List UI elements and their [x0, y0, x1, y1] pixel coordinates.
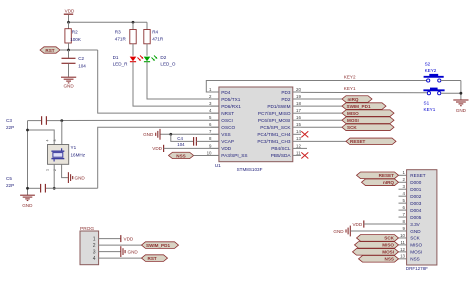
- svg-text:NSS: NSS: [410, 257, 419, 262]
- net label NSS (DRF): [359, 256, 399, 263]
- wire crystal pin2 to ground: [62, 164, 68, 177]
- svg-text:3: 3: [93, 250, 96, 256]
- svg-text:SWIM_PD1: SWIM_PD1: [347, 104, 371, 109]
- svg-text:SCK: SCK: [384, 236, 394, 241]
- svg-text:R3: R3: [115, 29, 121, 34]
- pin 2 PROG: [93, 243, 142, 249]
- svg-text:PD1/SWIM: PD1/SWIM: [267, 104, 290, 109]
- wire VDD rail to R3/R4: [69, 21, 148, 23]
- svg-text:RESET: RESET: [350, 139, 366, 144]
- pin 9 GND (DRF): [399, 226, 422, 234]
- net label MOSI: [342, 117, 394, 124]
- capacitor C3: [28, 116, 62, 125]
- svg-text:PC4/TIM1_CH4: PC4/TIM1_CH4: [257, 132, 290, 137]
- pin 18 PD1/SWIM: [267, 101, 301, 109]
- no-connect X pin14: [301, 131, 308, 137]
- node RST junction: [67, 49, 70, 52]
- wire VSS to ground: [160, 133, 219, 135]
- svg-text:KEY2: KEY2: [344, 74, 356, 79]
- wire pin18: [301, 105, 342, 107]
- svg-text:GND: GND: [410, 229, 421, 234]
- ground GND (keys): [453, 100, 468, 113]
- wire D1 to PD6/RX1: [133, 62, 219, 106]
- svg-text:OSCI: OSCI: [221, 118, 232, 123]
- svg-text:KEY2: KEY2: [425, 68, 437, 73]
- svg-text:SWIM_PD1: SWIM_PD1: [146, 243, 170, 248]
- wire C4 to ground rail: [171, 134, 194, 141]
- net label MISO (DRF): [355, 242, 399, 249]
- net label nIRQ (DRF): [362, 179, 399, 186]
- pin 4 NRST: [209, 108, 234, 116]
- svg-text:PD4: PD4: [221, 90, 231, 95]
- svg-text:GND: GND: [63, 84, 74, 89]
- net label RESET (MCU): [346, 138, 396, 145]
- svg-text:STM8S103F: STM8S103F: [237, 167, 263, 172]
- ground GND (DRF): [333, 226, 398, 237]
- capacitor C2: [62, 50, 87, 77]
- switch S2 KEY2: [424, 61, 461, 82]
- svg-text:VSS: VSS: [221, 132, 230, 137]
- pin 6 D004 (DRF): [399, 205, 422, 213]
- svg-text:11: 11: [400, 240, 405, 245]
- svg-text:17: 17: [296, 108, 301, 113]
- pin 13 PC3/TIM1_CH3: [257, 136, 301, 144]
- pin 7 D005 (DRF): [399, 212, 422, 220]
- node pin1 junction: [53, 187, 56, 190]
- LED D2 (green): [144, 55, 176, 67]
- svg-text:104: 104: [78, 63, 86, 68]
- capacitor C4: [177, 136, 219, 147]
- net label SCK: [342, 124, 394, 131]
- svg-text:VCAP: VCAP: [221, 139, 234, 144]
- net label SWIM_PD1: [342, 103, 386, 110]
- pin 8 VCAP: [209, 136, 234, 144]
- svg-text:10: 10: [207, 150, 212, 155]
- node keys junction: [460, 92, 463, 95]
- net label NSS: [169, 152, 219, 158]
- svg-text:C5: C5: [6, 176, 12, 181]
- svg-text:R4: R4: [152, 29, 158, 34]
- net label nIRQ: [342, 96, 372, 103]
- svg-text:MOSI: MOSI: [382, 250, 394, 255]
- svg-text:MOSI: MOSI: [347, 118, 359, 123]
- wire left vertical rail: [27, 121, 29, 196]
- svg-text:PC7/SPI_MISO: PC7/SPI_MISO: [258, 111, 291, 116]
- pin 8 3.3V (DRF): [399, 219, 421, 227]
- svg-text:MOSI: MOSI: [410, 250, 422, 255]
- svg-text:3.3V: 3.3V: [410, 222, 420, 227]
- net label RESET (DRF): [357, 172, 399, 179]
- node VDD junction: [67, 21, 70, 24]
- pin 3 PROG: [93, 250, 121, 256]
- svg-text:22P: 22P: [6, 183, 14, 188]
- module U2 DRF1278F: [407, 170, 437, 265]
- svg-text:U1: U1: [215, 163, 221, 169]
- svg-text:KEY1: KEY1: [424, 107, 436, 112]
- pin 1 PROG: [93, 237, 121, 243]
- svg-text:NSS: NSS: [385, 257, 394, 262]
- pin 17 PC7/SPI_MISO: [258, 108, 302, 116]
- svg-text:PC5/SPI_SCK: PC5/SPI_SCK: [260, 125, 291, 130]
- wire crystal pin4 link: [28, 130, 55, 145]
- svg-text:471R: 471R: [115, 36, 127, 41]
- svg-text:GND: GND: [143, 132, 154, 137]
- svg-text:RST: RST: [148, 256, 157, 261]
- wire OSCO runner: [98, 127, 219, 188]
- svg-text:19: 19: [296, 94, 301, 99]
- svg-text:12: 12: [296, 143, 301, 148]
- svg-text:PA3/SPI_SS: PA3/SPI_SS: [221, 153, 247, 158]
- power VDD (MCU pin9): [152, 145, 219, 152]
- svg-text:RST: RST: [45, 48, 54, 53]
- svg-text:MISO: MISO: [410, 243, 422, 248]
- svg-text:16: 16: [296, 115, 301, 120]
- net label RST (PROG): [142, 255, 168, 262]
- svg-text:MISO: MISO: [382, 243, 394, 248]
- pin 20 PD3: [281, 87, 301, 95]
- svg-text:100K: 100K: [70, 37, 82, 42]
- wire NRST runner: [98, 50, 219, 113]
- wire crystal pin1 down: [53, 164, 55, 188]
- svg-text:RESET: RESET: [410, 173, 426, 178]
- svg-text:D003: D003: [410, 201, 421, 206]
- svg-text:C4: C4: [177, 136, 183, 141]
- wire KEY2 (PD4 to S2): [206, 81, 426, 93]
- svg-text:PB5/SDA: PB5/SDA: [271, 153, 292, 158]
- pin 4 PROG: [93, 256, 142, 262]
- crystal Y1: [46, 140, 86, 172]
- switch S1 KEY1: [423, 88, 461, 112]
- svg-text:S2: S2: [425, 61, 431, 66]
- svg-text:4: 4: [93, 256, 96, 262]
- svg-text:PC3/TIM1_CH3: PC3/TIM1_CH3: [257, 139, 290, 144]
- svg-text:GND: GND: [456, 108, 467, 113]
- svg-text:22P: 22P: [6, 125, 14, 130]
- pin 11 PB5/SDA: [271, 150, 301, 158]
- svg-text:VDD: VDD: [124, 236, 134, 241]
- wire crystal pin3 link: [61, 121, 63, 145]
- svg-text:GND: GND: [333, 229, 344, 234]
- svg-text:104: 104: [177, 142, 185, 147]
- pin 3 PD6/RX1: [209, 101, 241, 109]
- svg-text:2: 2: [93, 243, 96, 249]
- wire pin17: [301, 112, 342, 114]
- svg-text:D001: D001: [410, 187, 421, 192]
- svg-text:nIRQ: nIRQ: [348, 97, 359, 102]
- svg-text:LED_R: LED_R: [113, 62, 128, 67]
- pin 12 MOSI (DRF): [399, 247, 423, 255]
- svg-text:SCK: SCK: [410, 236, 420, 241]
- svg-text:VDD: VDD: [152, 146, 162, 151]
- svg-text:PD3: PD3: [281, 90, 291, 95]
- resistor R4: [144, 22, 164, 56]
- svg-text:D000: D000: [410, 180, 421, 185]
- ground GND (PROG): [121, 246, 139, 257]
- ground GND (VSS): [143, 129, 160, 140]
- pin 5 OSCI: [209, 115, 233, 123]
- net label MISO: [342, 110, 394, 117]
- svg-text:D2: D2: [160, 55, 166, 60]
- svg-text:13: 13: [296, 136, 301, 141]
- svg-text:PB4/SCL: PB4/SCL: [271, 146, 291, 151]
- pin 11 MISO (DRF): [399, 240, 423, 248]
- svg-text:1: 1: [93, 237, 96, 243]
- net label MOSI (DRF): [353, 249, 399, 256]
- svg-text:S1: S1: [424, 101, 430, 106]
- wire RST to NRST runner: [60, 49, 98, 51]
- pin 6 OSCO: [209, 122, 235, 130]
- svg-text:D005: D005: [410, 215, 421, 220]
- wire pin19: [301, 98, 342, 100]
- power VDD (PROG): [121, 235, 134, 242]
- svg-text:D002: D002: [410, 194, 421, 199]
- svg-text:Y1: Y1: [71, 145, 77, 150]
- svg-text:GND: GND: [75, 176, 86, 181]
- svg-text:VDD: VDD: [65, 9, 75, 14]
- pin 15 PC5/SPI_SCK: [260, 122, 301, 130]
- resistor R2: [65, 22, 82, 50]
- svg-text:NRST: NRST: [221, 111, 234, 116]
- net label RST: [40, 47, 60, 53]
- svg-text:C3: C3: [6, 118, 12, 123]
- svg-text:OSCO: OSCO: [221, 125, 235, 130]
- wire pin15: [301, 126, 342, 128]
- pin 7 VSS: [209, 129, 231, 137]
- pin 19 PD2: [281, 94, 301, 102]
- no-connect X pin11: [301, 152, 308, 158]
- pin 12 PB4/SCL: [271, 143, 307, 151]
- op-amp U1 body: [219, 87, 293, 162]
- svg-text:PC6/SPI_MOSI: PC6/SPI_MOSI: [258, 118, 291, 123]
- svg-text:NSS: NSS: [176, 153, 185, 158]
- LED D1 (red): [113, 55, 144, 67]
- pin 5 D003 (DRF): [399, 198, 422, 206]
- pin 16 PC6/SPI_MOSI: [258, 115, 302, 123]
- svg-text:11: 11: [296, 150, 301, 155]
- capacitor C5: [28, 184, 98, 193]
- pin 1 RESET (DRF): [399, 170, 426, 178]
- pin 2 D000 (DRF): [399, 177, 422, 185]
- svg-text:MISO: MISO: [347, 111, 359, 116]
- wire keys to ground: [460, 81, 462, 100]
- svg-text:GND: GND: [22, 203, 33, 208]
- svg-text:D1: D1: [113, 55, 119, 60]
- svg-text:VDD: VDD: [221, 146, 232, 151]
- svg-text:15: 15: [296, 122, 301, 127]
- ground GND (crystal case): [68, 172, 85, 183]
- resistor R3: [115, 22, 136, 56]
- svg-text:VDD: VDD: [352, 222, 362, 227]
- pin 13 NSS (DRF): [399, 254, 420, 262]
- svg-text:PD5/TX1: PD5/TX1: [221, 97, 240, 102]
- power VDD (DRF 3.3V): [352, 220, 398, 227]
- svg-text:12: 12: [400, 247, 405, 252]
- node R3 top junction: [132, 21, 135, 24]
- wire OSCI: [62, 119, 219, 121]
- pin 2 PD5/TX1: [209, 94, 241, 102]
- wire KEY1 (PD3 to S1): [301, 91, 427, 93]
- svg-text:R2: R2: [72, 30, 78, 35]
- svg-text:16MHz: 16MHz: [71, 153, 86, 158]
- wire pin16: [301, 119, 342, 121]
- pin 10 SCK (DRF): [399, 233, 421, 241]
- pin 3 D001 (DRF): [399, 184, 422, 192]
- svg-text:DRF1278F: DRF1278F: [406, 266, 428, 271]
- svg-text:3: 3: [53, 140, 57, 142]
- svg-text:10: 10: [400, 233, 405, 238]
- svg-text:1: 1: [46, 169, 50, 171]
- svg-text:471R: 471R: [152, 36, 164, 41]
- pin 9 VDD: [209, 143, 232, 151]
- node C5 left junction: [26, 187, 29, 190]
- svg-text:20: 20: [296, 87, 301, 92]
- svg-text:18: 18: [296, 101, 301, 106]
- wire pin13: [301, 140, 346, 142]
- svg-text:GND: GND: [128, 249, 139, 254]
- power VDD (top): [64, 9, 75, 23]
- svg-text:C2: C2: [78, 56, 84, 61]
- net label SWIM_PD1 (PROG): [142, 242, 179, 249]
- pin 4 D002 (DRF): [399, 191, 422, 199]
- svg-text:KEY1: KEY1: [344, 86, 356, 91]
- node VSS junction: [169, 133, 172, 136]
- svg-text:PD2: PD2: [281, 97, 291, 102]
- svg-text:13: 13: [400, 254, 405, 259]
- net label SCK (DRF): [357, 235, 399, 242]
- svg-text:14: 14: [296, 129, 301, 134]
- pin 14 PC4/TIM1_CH4: [257, 129, 301, 137]
- connector P1 PROG: [80, 226, 99, 265]
- svg-text:2: 2: [53, 169, 57, 171]
- node OSCI junction: [60, 119, 63, 122]
- svg-text:SCK: SCK: [347, 125, 357, 130]
- pin 10 PA3/SPI_SS: [207, 150, 248, 158]
- ground (bottom left): [20, 195, 35, 208]
- svg-text:nIRQ: nIRQ: [383, 180, 394, 185]
- svg-text:4: 4: [46, 140, 50, 142]
- svg-text:LED_O: LED_O: [160, 62, 175, 67]
- svg-text:RESET: RESET: [379, 173, 395, 178]
- wire D2 to PD5/TX1: [147, 62, 219, 99]
- svg-text:PD6/RX1: PD6/RX1: [221, 104, 241, 109]
- node pin4 junction: [26, 129, 29, 132]
- svg-text:D004: D004: [410, 208, 421, 213]
- ground GND (below C2): [61, 77, 76, 88]
- pin 1 PD4: [209, 87, 231, 95]
